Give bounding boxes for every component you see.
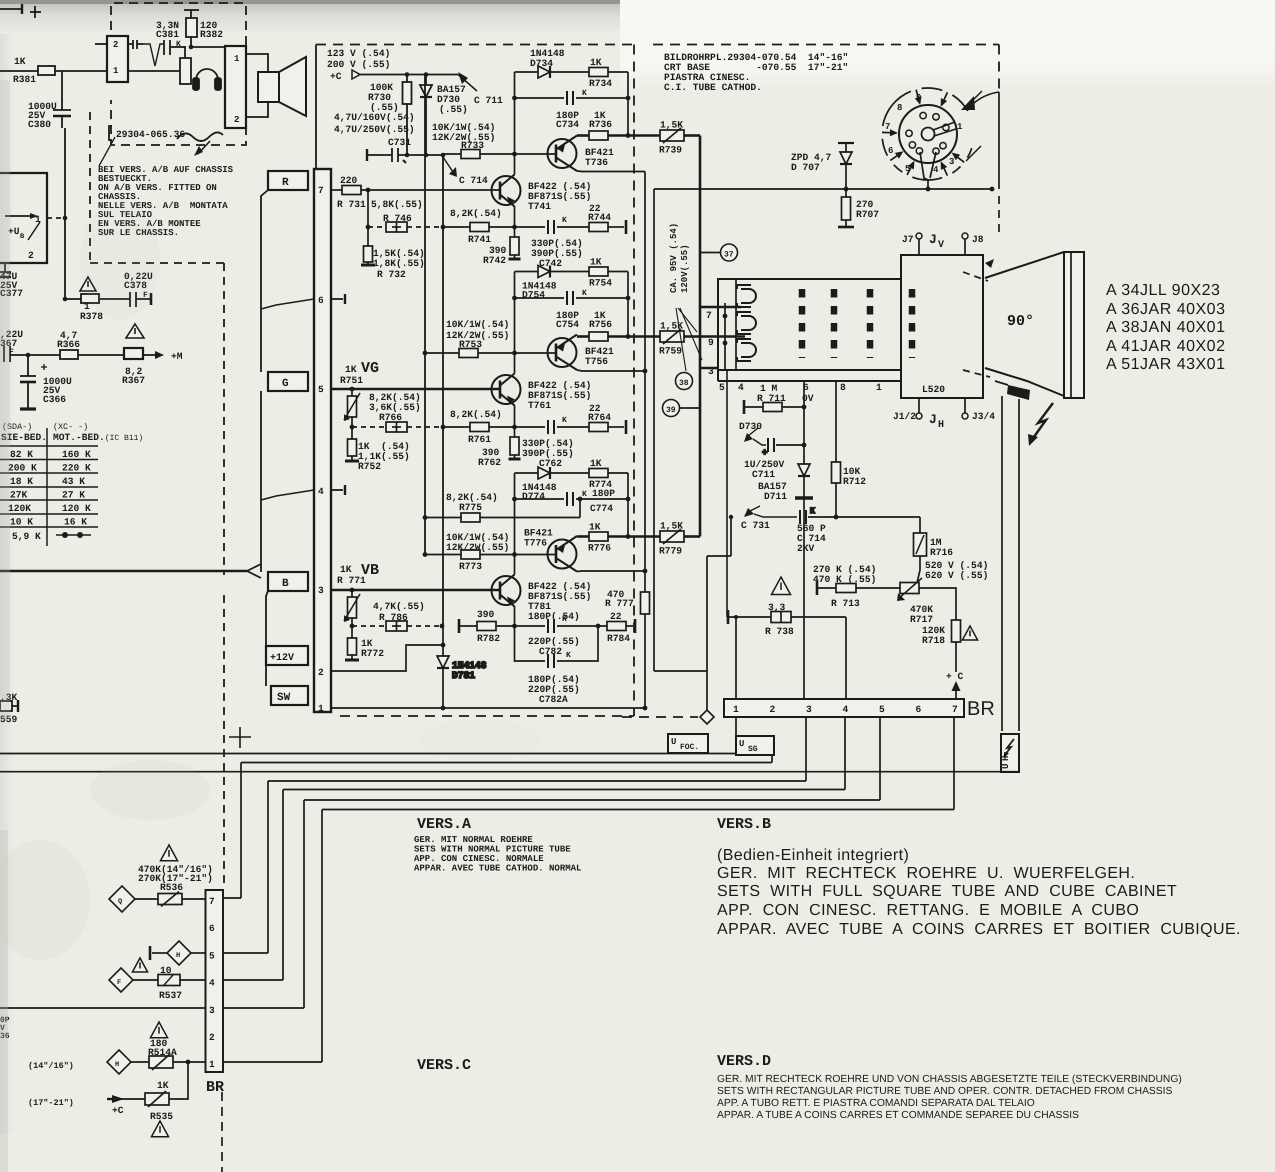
svg-text:1K: 1K <box>589 522 601 533</box>
+C feed symbol <box>352 70 360 79</box>
table divider vertical <box>46 428 48 546</box>
diamond F <box>109 968 133 992</box>
wire base G upper from node <box>515 352 557 354</box>
svg-text:R 777: R 777 <box>605 598 634 609</box>
box B <box>268 572 308 591</box>
pin6 merge <box>261 299 314 309</box>
svg-text:R739: R739 <box>659 145 682 156</box>
wire bold output B <box>684 535 700 538</box>
svg-text:R 746: R 746 <box>383 213 412 224</box>
capacitor C377 <box>0 263 11 277</box>
resistor R741 8,2K <box>470 223 489 232</box>
wire x880 from R713 row down <box>879 588 881 699</box>
svg-text:R382: R382 <box>200 29 223 40</box>
node <box>63 216 68 221</box>
svg-text:FOC.: FOC. <box>680 743 699 752</box>
node D730 top <box>424 72 429 77</box>
svg-text:C366: C366 <box>43 394 66 405</box>
U SG box <box>736 736 774 755</box>
svg-text:R759: R759 <box>659 346 682 357</box>
svg-text:F: F <box>117 979 121 987</box>
svg-text:38: 38 <box>679 379 689 388</box>
svg-text:5: 5 <box>318 384 324 395</box>
box +12V <box>266 646 308 665</box>
wire pin1 row <box>131 1061 149 1063</box>
svg-text:+ C: + C <box>946 671 964 682</box>
svg-text:C380: C380 <box>28 119 51 130</box>
svg-text:+C: +C <box>112 1105 124 1116</box>
svg-text:1: 1 <box>957 122 963 132</box>
jumper symbol last row <box>56 534 91 536</box>
svg-text:A 51JAR 43X01: A 51JAR 43X01 <box>1106 356 1225 373</box>
wire dashed pot row B <box>352 625 386 627</box>
capacitor C381 <box>150 46 162 48</box>
wire dashed pot row R <box>368 226 386 228</box>
svg-text:3: 3 <box>949 157 954 167</box>
dashed enclosure top-left module <box>111 3 246 145</box>
resistor R753 <box>425 352 459 354</box>
wire loop-left vertical x514 R <box>514 72 516 154</box>
wire v-notch <box>143 44 164 66</box>
wire C782A loop <box>515 626 546 661</box>
CRT box dashed right <box>998 45 1000 93</box>
warning triangle pin4 <box>132 958 147 972</box>
resistor R733 <box>443 153 461 155</box>
svg-text:BR: BR <box>967 698 995 720</box>
svg-text:8,2K(.54): 8,2K(.54) <box>450 208 502 219</box>
svg-text:1K: 1K <box>340 564 352 575</box>
socket pin 3 <box>940 143 946 149</box>
svg-text:R381: R381 <box>13 74 36 85</box>
wire bold into sparkbox y368 <box>700 367 718 370</box>
svg-text:1K: 1K <box>590 57 602 68</box>
resistor R713 <box>816 581 819 595</box>
ground R742 <box>509 258 521 261</box>
svg-text:C711: C711 <box>752 469 775 480</box>
wire diode row R <box>515 71 539 73</box>
svg-text:APPAR. AVEC TUBE A COINS: APPAR. AVEC TUBE A COINS CARRES ET BOITI… <box>717 921 1241 938</box>
svg-text:2KV: 2KV <box>797 543 815 554</box>
svg-text:R752: R752 <box>358 461 381 472</box>
wire to speaker bottom <box>246 102 268 117</box>
wire collector row G <box>577 370 645 371</box>
svg-text:R773: R773 <box>459 561 482 572</box>
capacitor C782A <box>547 654 549 668</box>
svg-text:16 K: 16 K <box>64 517 87 528</box>
capacitor C366 polarized <box>20 364 47 408</box>
wire capacitor row R <box>515 97 565 99</box>
wire 0V column <box>803 381 805 699</box>
svg-text:200 V (.55): 200 V (.55) <box>327 59 390 70</box>
resistor R732 <box>364 246 373 262</box>
capacitor C754 <box>566 291 568 305</box>
box R <box>268 171 308 190</box>
wire R378 row <box>65 298 81 300</box>
svg-text:390: 390 <box>477 609 495 620</box>
box G <box>268 372 308 391</box>
wire funnel down right <box>1018 399 1020 731</box>
wire pin2 UB down <box>27 263 29 299</box>
svg-text:2: 2 <box>234 115 239 125</box>
wire bold into sparkbox y307 <box>700 306 741 309</box>
svg-text:3: 3 <box>708 366 714 377</box>
svg-text:37: 37 <box>724 251 734 260</box>
resistor R559 partial at left edge <box>0 700 18 712</box>
socket pin 9 <box>933 114 939 120</box>
svg-text:(XC- -): (XC- -) <box>53 422 88 432</box>
svg-text:K: K <box>562 615 567 624</box>
svg-text:4: 4 <box>209 978 215 989</box>
svg-text:D754: D754 <box>522 290 545 301</box>
svg-text:120 K: 120 K <box>62 503 91 514</box>
ground D711 <box>795 496 813 499</box>
svg-text:6: 6 <box>916 704 922 715</box>
node C714 rail top <box>441 153 446 158</box>
svg-text:27 K: 27 K <box>62 490 85 501</box>
svg-text:8: 8 <box>840 382 846 393</box>
wire C380 column <box>61 71 63 110</box>
svg-text:D 707: D 707 <box>791 162 820 173</box>
svg-text:1K: 1K <box>590 458 602 469</box>
svg-text:220 K: 220 K <box>62 463 91 474</box>
connector +UB box <box>0 173 47 263</box>
svg-text:H: H <box>115 1061 119 1069</box>
ground R752 <box>345 460 359 463</box>
wire to right connector <box>191 46 225 48</box>
wire capacitor row G <box>515 297 565 299</box>
circle test point 38 <box>676 373 693 390</box>
svg-text:T756: T756 <box>585 356 608 367</box>
label CRT tube types list <box>1106 282 1225 373</box>
svg-text:1,5K: 1,5K <box>660 120 683 131</box>
svg-text:K: K <box>566 651 571 660</box>
svg-text:C 714: C 714 <box>459 175 488 186</box>
wire R773 row <box>425 554 461 556</box>
svg-text:6: 6 <box>209 923 215 934</box>
svg-text:U: U <box>739 739 744 749</box>
node <box>63 297 68 302</box>
svg-text:R367: R367 <box>122 375 145 386</box>
svg-text:200 K: 200 K <box>8 463 37 474</box>
svg-text:12K/2W(.55): 12K/2W(.55) <box>446 542 509 553</box>
resistor R762 390 vertical <box>514 427 516 437</box>
speaker <box>258 57 306 116</box>
wire R366 row <box>28 354 60 356</box>
svg-text:R762: R762 <box>478 457 501 468</box>
svg-text:123 V (.54): 123 V (.54) <box>327 48 390 59</box>
warning triangle <box>126 324 144 338</box>
resistor R779 1,5K <box>660 531 684 542</box>
svg-text:C742: C742 <box>539 258 562 269</box>
svg-text:R741: R741 <box>468 234 491 245</box>
dashed border y263 <box>90 262 224 264</box>
ground R732 <box>367 262 369 264</box>
corner B down to BR2 pin7 <box>240 763 242 899</box>
svg-text:8,2K(.54): 8,2K(.54) <box>450 409 502 420</box>
svg-text:H: H <box>1001 756 1011 761</box>
svg-text:CA. 95V (.54): CA. 95V (.54) <box>669 223 679 293</box>
svg-text:J1/2: J1/2 <box>893 411 916 422</box>
resistor R776 <box>577 535 660 538</box>
wire dashed pot row G <box>352 426 386 428</box>
node C731/R730 <box>405 153 410 158</box>
wire loop-right vertical x628 R <box>627 72 629 136</box>
socket pin 7 <box>906 130 912 136</box>
svg-text:V: V <box>938 240 944 251</box>
pin4 merge <box>261 490 314 500</box>
label 1K R381 <box>0 0 1 1</box>
svg-text:R742: R742 <box>483 255 506 266</box>
box SW <box>271 686 308 705</box>
wire pin5 row <box>152 952 168 954</box>
wire R717 to R718 <box>919 588 956 620</box>
svg-text:D711: D711 <box>764 491 787 502</box>
svg-text:90°: 90° <box>1007 313 1034 330</box>
wire x736 down to BR1 <box>735 370 737 617</box>
socket heater arrow pin1 <box>974 92 999 103</box>
svg-text:C754: C754 <box>556 319 579 330</box>
connector strip BR-module <box>314 169 331 712</box>
svg-text:C 711: C 711 <box>474 95 503 106</box>
svg-text:5,8K(.55): 5,8K(.55) <box>371 199 423 210</box>
capacitor C378 <box>130 292 151 307</box>
pin6 stub <box>331 298 343 300</box>
scan smudges <box>0 80 540 1172</box>
resistor R711 1M <box>743 400 746 414</box>
svg-text:2: 2 <box>28 250 34 261</box>
rail A y753.5 <box>0 753 736 755</box>
wire emitter bus x643 <box>644 172 646 372</box>
wire collector R lower to loop <box>514 154 516 175</box>
J3/4 terminal <box>962 413 968 419</box>
svg-text:4,7U/250V(.55): 4,7U/250V(.55) <box>334 124 415 135</box>
wire R732 branch <box>367 190 369 246</box>
CRT socket circle <box>899 105 957 163</box>
svg-text:1,8K(.55): 1,8K(.55) <box>373 258 425 269</box>
CRT box dashed top <box>653 44 999 46</box>
wire pin2 ext <box>654 670 707 672</box>
wire capacitor row B <box>515 498 565 500</box>
svg-text:8: 8 <box>897 103 902 113</box>
svg-text:H: H <box>176 952 180 960</box>
pin4 stub <box>331 489 343 491</box>
warning triangle <box>80 277 96 291</box>
table row lines <box>0 445 98 447</box>
rail C y771.7 full <box>0 771 1019 773</box>
svg-text:R366: R366 <box>57 339 80 350</box>
anode blob <box>1007 385 1030 400</box>
svg-text:APPAR. AVEC TUBE CATHOD. NORMA: APPAR. AVEC TUBE CATHOD. NORMAL <box>414 864 581 874</box>
wire horizontal y189 <box>654 188 992 190</box>
resistor R736 <box>577 134 660 137</box>
svg-text:6: 6 <box>318 295 324 306</box>
svg-text:C 731: C 731 <box>741 520 770 531</box>
svg-text:K: K <box>582 89 587 98</box>
svg-text:7: 7 <box>885 122 890 132</box>
svg-text:2: 2 <box>770 704 776 715</box>
socket pin 8 <box>920 112 926 118</box>
pot slash inside UB <box>28 222 40 240</box>
wire base R upper from node <box>515 153 557 155</box>
wire +C rail down <box>424 75 426 156</box>
connector X2 right <box>225 46 246 128</box>
socket pin 6 <box>909 142 915 148</box>
wire bold output vertical x700 <box>699 136 702 537</box>
svg-text:7: 7 <box>209 896 215 907</box>
zener ZPD4,7 D707 <box>838 142 854 144</box>
svg-text:1: 1 <box>35 214 41 225</box>
U FOC box <box>668 734 708 753</box>
svg-text:R753: R753 <box>459 339 482 350</box>
svg-text:K: K <box>582 289 587 298</box>
wire diamond up <box>706 724 708 736</box>
svg-text:1K: 1K <box>590 257 602 268</box>
module dashed border bottom <box>340 715 634 717</box>
svg-text:3,3: 3,3 <box>768 602 786 613</box>
wire collector B lower to loop <box>514 555 516 575</box>
trimmer R746 <box>386 222 407 232</box>
wire T-bar end B <box>626 625 633 627</box>
resistor R366 <box>60 350 78 359</box>
svg-text:L520: L520 <box>922 384 945 395</box>
svg-text:R 786: R 786 <box>379 612 408 623</box>
svg-text:R537: R537 <box>159 990 182 1001</box>
wire pin row bold G <box>331 388 500 391</box>
svg-text:18 K: 18 K <box>10 476 33 487</box>
dashed continuation below BR2 <box>221 1092 223 1172</box>
right border vertical <box>998 92 1000 189</box>
capacitor C774 <box>566 492 568 506</box>
svg-text:3: 3 <box>209 1005 215 1016</box>
svg-text:+C: +C <box>330 71 342 82</box>
svg-text:120K: 120K <box>8 503 31 514</box>
svg-text:2: 2 <box>113 40 118 50</box>
arrow C714 <box>443 157 453 172</box>
svg-text:APP. CON CINESC. RETTANG.: APP. CON CINESC. RETTANG. E MOBILE A CUB… <box>717 902 1139 919</box>
arrow +M <box>155 351 164 359</box>
socket pin 4 <box>933 148 939 154</box>
svg-text:SETS WITH RECTANGULAR PICTURE: SETS WITH RECTANGULAR PICTURE TUBE AND O… <box>717 1086 1173 1097</box>
circle test point 39 <box>679 407 700 409</box>
svg-text:R779: R779 <box>659 546 682 557</box>
svg-text:(Bedien-Einheit integriert): (Bedien-Einheit integriert) <box>717 847 909 864</box>
svg-text:R 731: R 731 <box>337 199 366 210</box>
svg-text:2: 2 <box>318 667 324 678</box>
svg-text:Q: Q <box>118 898 122 906</box>
svg-text:43 K: 43 K <box>62 476 85 487</box>
svg-text:G: G <box>282 378 289 390</box>
svg-text:SW: SW <box>277 692 291 704</box>
diode D711 BA157 <box>798 464 810 476</box>
svg-text:APP. A TUBO RETT. E PIASTRA CO: APP. A TUBO RETT. E PIASTRA COMANDI SEPA… <box>717 1098 1035 1109</box>
dashed border vertical x224 <box>223 263 225 575</box>
svg-text:1K: 1K <box>157 1080 169 1091</box>
wire pin3 row long <box>0 1007 205 1009</box>
socket arrow pin3 slash <box>966 146 981 161</box>
capacitor C782 <box>547 619 549 633</box>
resistor R731 <box>342 186 361 195</box>
svg-text:C734: C734 <box>556 119 579 130</box>
wire pin2 row <box>331 645 443 671</box>
svg-text:A 38JAN 40X01: A 38JAN 40X01 <box>1106 319 1225 336</box>
wire loop-right vertical x628 G <box>627 272 629 337</box>
diode D754 <box>538 266 550 278</box>
resistor R764 22 <box>589 423 608 432</box>
svg-text:160 K: 160 K <box>62 449 91 460</box>
svg-text:(.55): (.55) <box>439 104 468 115</box>
svg-text:(14"/16"): (14"/16") <box>28 1061 74 1071</box>
svg-text:R717: R717 <box>910 614 933 625</box>
arrow +C R535 <box>121 1098 145 1100</box>
pin1 drop <box>735 717 737 754</box>
resistor R382 <box>184 10 199 47</box>
svg-text:R764: R764 <box>588 412 611 423</box>
svg-text:K: K <box>562 416 567 425</box>
svg-text:R775: R775 <box>459 502 482 513</box>
resistor R756 <box>577 335 660 338</box>
wire spark pins left <box>700 306 737 308</box>
wire R535 branch <box>169 1062 188 1099</box>
warning triangle near R713 <box>772 577 791 595</box>
resistor R744 22 <box>589 223 608 232</box>
svg-text:R: R <box>282 177 289 189</box>
capacitor C762 <box>547 420 549 434</box>
wire to speaker top <box>246 54 268 72</box>
ground C366 <box>20 407 36 410</box>
UH box <box>1001 734 1019 772</box>
wire loop-left vertical x514 B <box>514 473 516 555</box>
diode D734 <box>538 66 550 78</box>
module solid left border <box>315 45 317 170</box>
svg-text:+: + <box>762 448 767 458</box>
svg-text:9: 9 <box>916 93 921 103</box>
capacitor C380 <box>53 110 71 128</box>
svg-text:H: H <box>938 420 944 431</box>
node <box>26 353 31 358</box>
trimmer R717 470K <box>900 583 919 594</box>
wire C366 stem <box>27 355 29 376</box>
resistor R774 <box>589 469 608 478</box>
warning triangle R514A <box>150 1022 167 1038</box>
left rail fork into B <box>0 570 247 573</box>
svg-text:VERS.D: VERS.D <box>717 1053 771 1070</box>
svg-text:BR: BR <box>206 1079 224 1096</box>
svg-text:120V(.55): 120V(.55) <box>680 244 690 293</box>
svg-text:R776: R776 <box>588 543 611 554</box>
svg-text:K: K <box>582 490 587 499</box>
svg-text:1: 1 <box>318 703 324 714</box>
wire C714 rail <box>442 155 444 227</box>
svg-text:R736: R736 <box>589 119 612 130</box>
diode D774 <box>538 467 550 479</box>
value labels CRT base area <box>664 52 1034 431</box>
wire x806 down <box>803 698 805 700</box>
socket pin 5 <box>916 148 922 154</box>
wire emitter B lower down <box>514 606 516 626</box>
resistor R752 <box>351 427 353 439</box>
diamond Q <box>109 886 135 912</box>
rail F y800 <box>304 799 880 801</box>
svg-text:470 K (.55): 470 K (.55) <box>813 574 876 585</box>
diamond node BR1 <box>622 716 698 718</box>
svg-text:C782A: C782A <box>539 694 568 705</box>
svg-text:39: 39 <box>666 406 676 415</box>
potentiometer R751 <box>351 389 353 396</box>
svg-text:U: U <box>671 737 676 747</box>
warning triangle right of R718 <box>962 626 977 640</box>
svg-text:J: J <box>929 412 937 427</box>
svg-text:1K: 1K <box>14 56 26 67</box>
